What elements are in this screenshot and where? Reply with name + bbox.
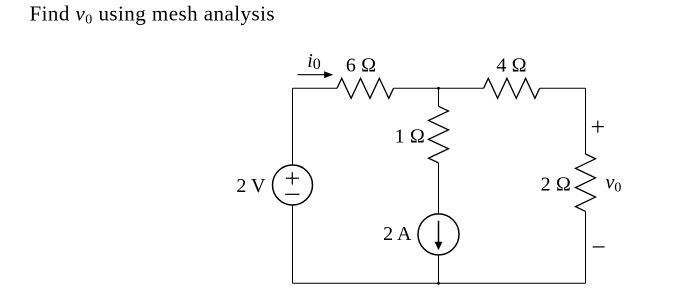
- wire top-middle segment: [394, 87, 484, 89]
- wire left upper: [292, 88, 294, 165]
- svg-text:Find v0 using mesh analysis: Find v0 using mesh analysis: [30, 2, 276, 28]
- wire middle between R3 and I1: [438, 163, 440, 214]
- resistor R3 1ohm: [429, 106, 449, 163]
- wire left lower: [292, 205, 294, 283]
- wire middle upper lead: [438, 88, 440, 106]
- wire right lower: [585, 211, 587, 283]
- svg-text:2 A: 2 A: [383, 223, 412, 245]
- node junction bottom: [437, 282, 440, 285]
- resistor R1 6ohm: [337, 78, 394, 98]
- current label i0: [307, 50, 321, 73]
- wire bottom: [293, 282, 586, 284]
- svg-text:4 Ω: 4 Ω: [496, 55, 526, 77]
- resistor R4 2ohm: [576, 154, 596, 211]
- svg-text:i0: i0: [307, 50, 321, 73]
- polarity minus: [593, 246, 605, 248]
- current source I1 arrow: [435, 221, 443, 250]
- svg-text:2 Ω: 2 Ω: [541, 174, 571, 196]
- current source I1 2A circle: [418, 214, 459, 255]
- title: Find v0 using mesh analysis: [30, 2, 276, 28]
- voltage source V1 plus sign: [286, 172, 299, 184]
- wire middle lower lead: [438, 255, 440, 283]
- svg-text:6 Ω: 6 Ω: [346, 55, 376, 77]
- svg-text:1 Ω: 1 Ω: [395, 126, 425, 148]
- polarity plus: [592, 121, 604, 133]
- node junction top: [437, 87, 440, 90]
- resistor R2 4ohm: [484, 78, 540, 98]
- wire top-left segment: [293, 87, 338, 89]
- current arrow i0: [298, 71, 334, 78]
- voltage source V1 minus sign: [285, 193, 299, 195]
- svg-text:v0: v0: [606, 172, 622, 196]
- wire right upper: [585, 88, 587, 154]
- wire top-right segment: [540, 87, 586, 89]
- voltage source V1 2V circle: [273, 165, 313, 205]
- label v0: [606, 172, 622, 196]
- svg-text:2 V: 2 V: [236, 175, 266, 197]
